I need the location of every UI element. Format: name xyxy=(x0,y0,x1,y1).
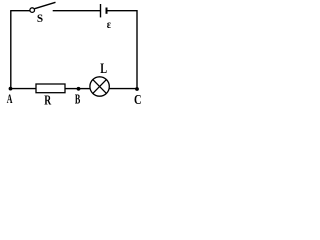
switch S xyxy=(30,2,56,12)
wire bottom right xyxy=(109,88,137,90)
svg-text:R: R xyxy=(44,93,51,108)
node A xyxy=(9,87,13,91)
wire B to lamp xyxy=(79,88,91,90)
lamp L xyxy=(90,77,109,96)
wire left vertical xyxy=(10,11,12,89)
battery cell xyxy=(101,4,107,17)
node B xyxy=(77,87,81,91)
wire top middle xyxy=(53,10,100,12)
svg-text:ε: ε xyxy=(107,18,112,31)
wire top-left horizontal xyxy=(10,10,29,12)
node C xyxy=(135,87,139,91)
svg-text:S: S xyxy=(37,13,43,25)
wire right vertical xyxy=(136,10,138,89)
wire top-right xyxy=(107,10,138,12)
wire resistor to B xyxy=(65,88,79,90)
resistor R xyxy=(36,84,65,93)
svg-text:B: B xyxy=(75,92,81,107)
svg-text:C: C xyxy=(134,92,142,108)
svg-text:L: L xyxy=(100,60,107,76)
svg-text:A: A xyxy=(7,93,13,106)
wire A to resistor xyxy=(11,88,36,90)
